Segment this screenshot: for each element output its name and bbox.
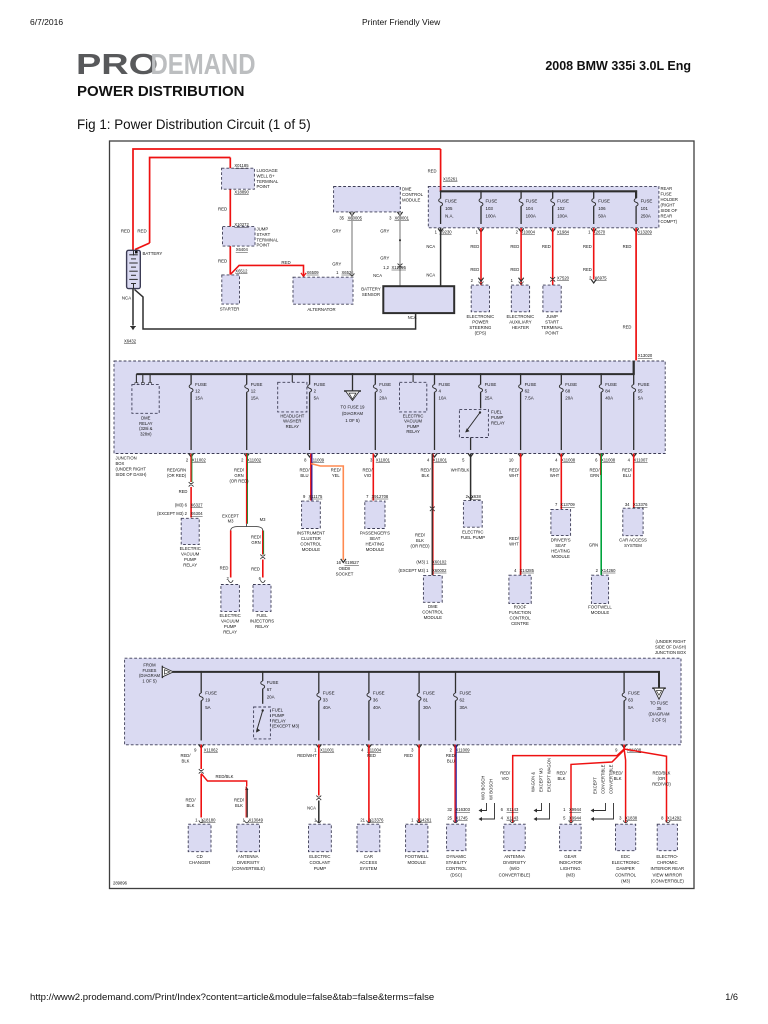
svg-text:5A: 5A bbox=[628, 705, 633, 710]
svg-text:X7520: X7520 bbox=[557, 275, 570, 280]
svg-text:63: 63 bbox=[628, 698, 633, 703]
svg-text:X11002: X11002 bbox=[247, 457, 262, 462]
svg-text:X10272: X10272 bbox=[234, 222, 249, 227]
svg-text:ELECTRO-: ELECTRO- bbox=[656, 854, 678, 859]
svg-text:DEMAND: DEMAND bbox=[151, 48, 256, 80]
svg-text:RED: RED bbox=[281, 260, 290, 265]
svg-text:16: 16 bbox=[336, 560, 341, 565]
svg-text:RED: RED bbox=[623, 325, 632, 330]
svg-text:X10004: X10004 bbox=[521, 230, 536, 235]
svg-text:FUSE: FUSE bbox=[641, 199, 653, 204]
svg-text:POINT: POINT bbox=[257, 184, 271, 189]
svg-text:MODULE: MODULE bbox=[591, 610, 610, 615]
svg-text:GRN: GRN bbox=[589, 543, 598, 548]
svg-text:X11008: X11008 bbox=[601, 457, 616, 462]
svg-text:RED/: RED/ bbox=[234, 798, 245, 803]
svg-text:DAMPER: DAMPER bbox=[616, 866, 634, 871]
svg-text:(EXCEPT M3): (EXCEPT M3) bbox=[272, 724, 300, 729]
svg-text:BLK: BLK bbox=[416, 538, 424, 543]
svg-text:DIVERSITY: DIVERSITY bbox=[503, 860, 526, 865]
svg-text:NCA: NCA bbox=[307, 806, 316, 811]
svg-text:(OR: (OR bbox=[658, 776, 666, 781]
svg-text:EXCEPT WAGON: EXCEPT WAGON bbox=[547, 758, 552, 792]
svg-text:W/O BOSCH: W/O BOSCH bbox=[481, 776, 486, 800]
svg-text:BLK: BLK bbox=[235, 803, 243, 808]
svg-text:RED: RED bbox=[510, 267, 519, 272]
svg-text:SEAT: SEAT bbox=[369, 536, 380, 541]
svg-text:REAR: REAR bbox=[661, 214, 673, 219]
svg-text:MODULE: MODULE bbox=[408, 860, 427, 865]
svg-text:36: 36 bbox=[373, 698, 378, 703]
svg-text:COMPT): COMPT) bbox=[661, 219, 678, 224]
svg-text:PUMP: PUMP bbox=[491, 415, 504, 420]
svg-text:SOCKET: SOCKET bbox=[336, 572, 354, 577]
svg-text:CONVERTIBLE): CONVERTIBLE) bbox=[499, 872, 531, 877]
svg-text:RED: RED bbox=[179, 489, 188, 494]
svg-text:WASHER: WASHER bbox=[283, 419, 301, 424]
svg-text:(RIGHT: (RIGHT bbox=[661, 203, 676, 208]
svg-text:OBDII: OBDII bbox=[339, 566, 351, 571]
svg-text:15A: 15A bbox=[251, 395, 259, 400]
svg-text:DRIVER'S: DRIVER'S bbox=[551, 538, 571, 543]
svg-text:CAR ACCESS: CAR ACCESS bbox=[619, 538, 647, 543]
svg-text:35: 35 bbox=[339, 215, 344, 220]
svg-text:40A: 40A bbox=[323, 705, 331, 710]
svg-text:RED: RED bbox=[121, 229, 130, 234]
svg-text:BATTERY: BATTERY bbox=[143, 251, 163, 256]
svg-text:RED/: RED/ bbox=[446, 753, 457, 758]
svg-text:100A: 100A bbox=[557, 213, 567, 218]
svg-text:POINT: POINT bbox=[257, 243, 271, 248]
svg-text:FUSE: FUSE bbox=[267, 680, 279, 685]
svg-text:SIDE OF DASH): SIDE OF DASH) bbox=[116, 472, 148, 477]
svg-text:RED: RED bbox=[470, 244, 479, 249]
svg-text:FUSE: FUSE bbox=[485, 382, 497, 387]
svg-text:FUSES: FUSES bbox=[143, 668, 157, 673]
svg-text:FUEL: FUEL bbox=[272, 708, 284, 713]
svg-text:(W/O: (W/O bbox=[509, 866, 520, 871]
svg-text:(M3) 6: (M3) 6 bbox=[175, 503, 188, 508]
svg-text:RED: RED bbox=[542, 244, 551, 249]
svg-text:N.A.: N.A. bbox=[445, 213, 454, 218]
svg-text:NCA: NCA bbox=[373, 273, 382, 278]
svg-text:TERMINAL: TERMINAL bbox=[541, 325, 563, 330]
svg-text:RED: RED bbox=[583, 244, 592, 249]
svg-text:RED/BLK: RED/BLK bbox=[653, 771, 671, 776]
svg-text:BOX: BOX bbox=[116, 461, 125, 466]
svg-text:RED: RED bbox=[218, 259, 227, 264]
svg-text:X14261: X14261 bbox=[417, 817, 432, 822]
svg-text:FUSE: FUSE bbox=[423, 691, 435, 696]
svg-text:MODULE: MODULE bbox=[302, 547, 321, 552]
svg-text:JUMP: JUMP bbox=[546, 314, 558, 319]
svg-text:289896: 289896 bbox=[113, 881, 128, 886]
svg-text:CONVERTIBLE: CONVERTIBLE bbox=[601, 764, 606, 794]
svg-text:FUSE: FUSE bbox=[661, 192, 672, 197]
svg-text:12: 12 bbox=[195, 389, 200, 394]
svg-text:WAGON &: WAGON & bbox=[531, 772, 536, 792]
svg-text:GRY: GRY bbox=[380, 256, 389, 261]
svg-text:1 OF 5): 1 OF 5) bbox=[142, 678, 157, 683]
svg-text:5A: 5A bbox=[638, 395, 643, 400]
svg-text:BLU: BLU bbox=[300, 473, 308, 478]
svg-text:EXCEPT M3: EXCEPT M3 bbox=[539, 768, 544, 792]
svg-text:RED: RED bbox=[583, 267, 592, 272]
svg-text:RED: RED bbox=[367, 753, 376, 758]
svg-text:X11002: X11002 bbox=[192, 457, 207, 462]
svg-text:FUSE: FUSE bbox=[628, 691, 640, 696]
svg-text:PUMP: PUMP bbox=[272, 713, 285, 718]
svg-text:106: 106 bbox=[598, 206, 606, 211]
svg-text:FUSE: FUSE bbox=[323, 691, 335, 696]
svg-text:VACUUM: VACUUM bbox=[221, 618, 240, 623]
svg-text:VIO: VIO bbox=[364, 473, 372, 478]
svg-text:55: 55 bbox=[638, 389, 643, 394]
svg-text:X1745: X1745 bbox=[456, 816, 469, 821]
svg-text:ELECTRONIC: ELECTRONIC bbox=[507, 314, 535, 319]
svg-text:MODULE: MODULE bbox=[366, 547, 385, 552]
svg-text:START: START bbox=[545, 319, 559, 324]
svg-text:PUMP: PUMP bbox=[314, 866, 327, 871]
svg-text:RED/: RED/ bbox=[509, 536, 520, 541]
svg-text:X11009: X11009 bbox=[456, 748, 471, 753]
svg-text:SIDE OF DASH): SIDE OF DASH) bbox=[655, 645, 687, 650]
svg-text:FUSE: FUSE bbox=[195, 382, 207, 387]
svg-text:X1143: X1143 bbox=[507, 807, 519, 812]
svg-text:(EPS): (EPS) bbox=[475, 330, 487, 335]
svg-text:X6304: X6304 bbox=[191, 511, 204, 516]
svg-text:RED: RED bbox=[251, 567, 260, 572]
svg-text:X9944: X9944 bbox=[569, 816, 582, 821]
svg-text:1,2: 1,2 bbox=[383, 265, 389, 270]
svg-text:X6404: X6404 bbox=[236, 247, 249, 252]
svg-text:X13376: X13376 bbox=[633, 502, 648, 507]
svg-text:http://www2.prodemand.com/Prin: http://www2.prodemand.com/Print/Index?co… bbox=[30, 992, 434, 1003]
svg-text:PRO: PRO bbox=[76, 49, 158, 80]
svg-text:BLU: BLU bbox=[447, 758, 455, 763]
svg-text:(OR RED): (OR RED) bbox=[229, 478, 249, 483]
svg-text:TO FUSE: TO FUSE bbox=[650, 701, 668, 706]
svg-text:RED/: RED/ bbox=[500, 771, 511, 776]
svg-text:(M3) 1: (M3) 1 bbox=[416, 560, 429, 565]
svg-text:X11062: X11062 bbox=[204, 748, 219, 753]
svg-text:RED/: RED/ bbox=[415, 533, 426, 538]
svg-text:CONVERTIBLE: CONVERTIBLE bbox=[609, 764, 614, 794]
svg-text:LUGGAGE: LUGGAGE bbox=[257, 168, 278, 173]
svg-text:100A: 100A bbox=[486, 213, 496, 218]
svg-text:BLK: BLK bbox=[614, 776, 622, 781]
svg-text:CENTRE: CENTRE bbox=[511, 621, 529, 626]
svg-text:FUSE: FUSE bbox=[557, 199, 569, 204]
svg-text:DME: DME bbox=[141, 416, 151, 421]
svg-text:RED: RED bbox=[137, 229, 146, 234]
svg-text:SYSTEM: SYSTEM bbox=[360, 866, 378, 871]
svg-text:X14285: X14285 bbox=[520, 568, 535, 573]
svg-text:X13049: X13049 bbox=[249, 817, 264, 822]
svg-text:GRN: GRN bbox=[590, 473, 599, 478]
svg-text:CHROMIC: CHROMIC bbox=[657, 860, 678, 865]
svg-text:19: 19 bbox=[205, 698, 210, 703]
svg-text:RED/: RED/ bbox=[420, 468, 431, 473]
svg-text:NCA: NCA bbox=[122, 296, 131, 301]
svg-text:MODULE: MODULE bbox=[552, 554, 571, 559]
svg-text:DIVERSITY: DIVERSITY bbox=[237, 860, 260, 865]
svg-text:CONTROL: CONTROL bbox=[509, 616, 531, 621]
svg-text:SENSOR: SENSOR bbox=[362, 292, 380, 297]
svg-text:10A: 10A bbox=[439, 395, 447, 400]
svg-text:68: 68 bbox=[565, 389, 570, 394]
svg-text:TERMINAL: TERMINAL bbox=[257, 237, 279, 242]
svg-text:X13020: X13020 bbox=[638, 353, 653, 358]
svg-text:(CONVERTIBLE): (CONVERTIBLE) bbox=[232, 866, 266, 871]
svg-text:X6327: X6327 bbox=[191, 503, 204, 508]
svg-text:50A: 50A bbox=[598, 213, 606, 218]
svg-text:FUSE: FUSE bbox=[373, 691, 385, 696]
svg-text:Fig 1: Power Distribution Circ: Fig 1: Power Distribution Circuit (1 of … bbox=[77, 117, 311, 132]
svg-text:STARTER: STARTER bbox=[220, 307, 240, 312]
svg-text:10: 10 bbox=[509, 457, 514, 462]
svg-text:EXCEPT: EXCEPT bbox=[593, 777, 598, 794]
svg-text:VIEW MIRROR: VIEW MIRROR bbox=[652, 872, 682, 877]
svg-text:X14292: X14292 bbox=[667, 816, 682, 821]
svg-text:X60005: X60005 bbox=[348, 215, 363, 220]
svg-text:RED/BLK: RED/BLK bbox=[216, 774, 234, 779]
svg-text:RED/: RED/ bbox=[613, 771, 624, 776]
svg-text:CLUSTER: CLUSTER bbox=[301, 536, 321, 541]
svg-text:FUSE: FUSE bbox=[638, 382, 650, 387]
svg-text:X16303: X16303 bbox=[456, 807, 471, 812]
svg-text:X1984: X1984 bbox=[557, 230, 570, 235]
svg-text:RELAY: RELAY bbox=[139, 421, 153, 426]
svg-text:W/ BOSCH: W/ BOSCH bbox=[489, 779, 494, 800]
svg-text:X12895: X12895 bbox=[392, 265, 407, 270]
svg-text:BLK: BLK bbox=[558, 776, 566, 781]
svg-text:POWER: POWER bbox=[472, 319, 488, 324]
svg-text:20A: 20A bbox=[565, 395, 573, 400]
svg-text:FUNCTION: FUNCTION bbox=[509, 610, 531, 615]
svg-text:FUSE: FUSE bbox=[251, 382, 263, 387]
svg-text:DME: DME bbox=[428, 604, 438, 609]
svg-text:RED: RED bbox=[623, 244, 632, 249]
svg-text:HEATER: HEATER bbox=[512, 325, 529, 330]
svg-text:ELECTRIC: ELECTRIC bbox=[180, 546, 201, 551]
svg-text:ELECTRONIC: ELECTRONIC bbox=[467, 314, 495, 319]
svg-text:RED/: RED/ bbox=[556, 771, 567, 776]
svg-text:25: 25 bbox=[447, 816, 452, 821]
svg-text:15A: 15A bbox=[195, 395, 203, 400]
svg-text:2 OF 5): 2 OF 5) bbox=[652, 717, 667, 722]
svg-text:328xi): 328xi) bbox=[140, 431, 152, 436]
svg-text:67: 67 bbox=[267, 687, 272, 692]
svg-text:BLU: BLU bbox=[623, 473, 631, 478]
svg-text:START: START bbox=[257, 232, 271, 237]
svg-text:CONTROL: CONTROL bbox=[615, 872, 637, 877]
svg-text:HEATING: HEATING bbox=[366, 542, 385, 547]
svg-text:X6512: X6512 bbox=[235, 268, 248, 273]
svg-text:X9944: X9944 bbox=[569, 807, 582, 812]
svg-text:STABILITY: STABILITY bbox=[446, 860, 467, 865]
svg-text:(EXCEPT M3) 1: (EXCEPT M3) 1 bbox=[399, 568, 430, 573]
svg-text:105: 105 bbox=[445, 206, 453, 211]
svg-text:X11008: X11008 bbox=[561, 457, 576, 462]
svg-text:X912708: X912708 bbox=[372, 494, 389, 499]
svg-text:2008 BMW 335i 3.0L Eng: 2008 BMW 335i 3.0L Eng bbox=[545, 59, 691, 73]
svg-text:WHT: WHT bbox=[550, 473, 560, 478]
svg-text:5A: 5A bbox=[205, 705, 210, 710]
svg-text:32: 32 bbox=[447, 807, 452, 812]
svg-text:X19527: X19527 bbox=[345, 560, 360, 565]
svg-text:RELAY: RELAY bbox=[272, 718, 286, 723]
svg-text:ELECTRIC: ELECTRIC bbox=[219, 613, 240, 618]
svg-text:WELL B+: WELL B+ bbox=[257, 173, 276, 178]
svg-text:102: 102 bbox=[557, 206, 565, 211]
svg-text:SIDE OF: SIDE OF bbox=[661, 208, 678, 213]
svg-text:X60002: X60002 bbox=[432, 568, 447, 573]
svg-text:M3: M3 bbox=[228, 519, 234, 524]
svg-text:X13209: X13209 bbox=[637, 230, 652, 235]
svg-text:40A: 40A bbox=[605, 395, 613, 400]
svg-text:CD: CD bbox=[196, 854, 202, 859]
svg-text:FUEL: FUEL bbox=[491, 410, 503, 415]
svg-text:FUSE: FUSE bbox=[439, 382, 451, 387]
svg-text:6/7/2016: 6/7/2016 bbox=[30, 17, 63, 27]
svg-text:250A: 250A bbox=[641, 213, 651, 218]
svg-text:SYSTEM: SYSTEM bbox=[624, 543, 642, 548]
svg-text:PUMP: PUMP bbox=[407, 424, 419, 429]
svg-text:X11007: X11007 bbox=[634, 457, 649, 462]
svg-text:FOOTWELL: FOOTWELL bbox=[588, 605, 612, 610]
svg-text:COOLANT: COOLANT bbox=[310, 860, 331, 865]
svg-text:(M3): (M3) bbox=[621, 878, 630, 883]
svg-text:DYNAMIC: DYNAMIC bbox=[446, 854, 466, 859]
svg-text:FUSE: FUSE bbox=[445, 199, 457, 204]
svg-text:FUSE: FUSE bbox=[565, 382, 577, 387]
svg-text:X18890: X18890 bbox=[234, 189, 249, 194]
svg-text:RED/: RED/ bbox=[622, 468, 633, 473]
svg-text:INDICATOR: INDICATOR bbox=[559, 860, 582, 865]
svg-text:RED/: RED/ bbox=[185, 798, 196, 803]
svg-text:RED/: RED/ bbox=[331, 468, 342, 473]
svg-text:7.5A: 7.5A bbox=[525, 395, 534, 400]
svg-text:(UNDER RIGHT: (UNDER RIGHT bbox=[656, 639, 687, 644]
svg-text:20A: 20A bbox=[267, 694, 275, 699]
svg-text:JUMP: JUMP bbox=[257, 227, 269, 232]
svg-text:ANTENNA: ANTENNA bbox=[504, 854, 525, 859]
svg-text:33: 33 bbox=[323, 698, 328, 703]
svg-text:103: 103 bbox=[486, 206, 494, 211]
svg-text:FUSE: FUSE bbox=[525, 382, 537, 387]
svg-text:TERMINAL: TERMINAL bbox=[257, 179, 279, 184]
svg-text:EDC: EDC bbox=[621, 854, 630, 859]
svg-text:LIGHTING: LIGHTING bbox=[560, 866, 581, 871]
svg-text:BATTERY: BATTERY bbox=[361, 287, 381, 292]
svg-text:FUEL PUMP: FUEL PUMP bbox=[461, 535, 486, 540]
svg-text:(OR RED): (OR RED) bbox=[167, 473, 187, 478]
svg-text:X11001: X11001 bbox=[376, 457, 391, 462]
svg-text:FUSE: FUSE bbox=[379, 382, 391, 387]
svg-text:BLK: BLK bbox=[182, 758, 190, 763]
svg-text:RED/: RED/ bbox=[180, 753, 191, 758]
svg-text:RED/VIO): RED/VIO) bbox=[652, 781, 671, 786]
svg-text:JUNCTION: JUNCTION bbox=[116, 456, 137, 461]
svg-text:RED/: RED/ bbox=[589, 468, 600, 473]
svg-text:GRY: GRY bbox=[332, 262, 341, 267]
svg-text:INSTRUMENT: INSTRUMENT bbox=[297, 531, 326, 536]
svg-text:(DIAGRAM: (DIAGRAM bbox=[139, 673, 160, 678]
svg-text:VACUUM: VACUUM bbox=[404, 419, 422, 424]
svg-text:RED: RED bbox=[218, 207, 227, 212]
svg-text:HOLDER: HOLDER bbox=[661, 197, 678, 202]
svg-text:MODULE: MODULE bbox=[402, 197, 421, 202]
svg-text:FUSE: FUSE bbox=[460, 691, 472, 696]
svg-text:40A: 40A bbox=[373, 705, 381, 710]
svg-text:FUSE: FUSE bbox=[598, 199, 610, 204]
svg-text:HEADLIGHT: HEADLIGHT bbox=[280, 413, 304, 418]
svg-text:1 OF 5): 1 OF 5) bbox=[345, 418, 360, 423]
svg-text:RED: RED bbox=[220, 566, 229, 571]
svg-text:X13376: X13376 bbox=[369, 817, 384, 822]
svg-text:FROM: FROM bbox=[143, 663, 156, 668]
svg-text:TO FUSE 19: TO FUSE 19 bbox=[341, 405, 366, 410]
svg-text:RED/: RED/ bbox=[550, 468, 561, 473]
svg-text:GRY: GRY bbox=[332, 229, 341, 234]
svg-text:X60102: X60102 bbox=[432, 560, 447, 565]
svg-text:REAR: REAR bbox=[661, 186, 673, 191]
svg-text:25A: 25A bbox=[485, 395, 493, 400]
svg-text:WHT: WHT bbox=[509, 473, 519, 478]
svg-text:FUEL: FUEL bbox=[257, 613, 269, 618]
svg-text:STEERING: STEERING bbox=[469, 325, 492, 330]
svg-text:CONTROL: CONTROL bbox=[300, 542, 322, 547]
svg-text:JUNCTION BOX: JUNCTION BOX bbox=[655, 650, 686, 655]
svg-text:ELECTRIC: ELECTRIC bbox=[403, 413, 424, 418]
svg-text:RED/: RED/ bbox=[509, 468, 520, 473]
svg-text:(328i &: (328i & bbox=[139, 426, 152, 431]
svg-text:X9230: X9230 bbox=[440, 230, 453, 235]
svg-text:INJECTORS: INJECTORS bbox=[250, 618, 274, 623]
svg-text:100A: 100A bbox=[526, 213, 536, 218]
svg-text:GRN: GRN bbox=[234, 473, 243, 478]
svg-text:(DSC): (DSC) bbox=[450, 872, 463, 877]
svg-text:RELAY: RELAY bbox=[286, 424, 300, 429]
svg-text:POWER DISTRIBUTION: POWER DISTRIBUTION bbox=[77, 83, 245, 100]
svg-text:62: 62 bbox=[460, 698, 465, 703]
svg-text:INTERIOR REAR: INTERIOR REAR bbox=[650, 866, 684, 871]
svg-text:CAR: CAR bbox=[364, 854, 373, 859]
svg-text:ANTENNA: ANTENNA bbox=[238, 854, 259, 859]
svg-text:GRN: GRN bbox=[251, 540, 260, 545]
svg-text:1/6: 1/6 bbox=[725, 992, 738, 1002]
svg-text:X14260: X14260 bbox=[601, 568, 616, 573]
svg-text:FUSE: FUSE bbox=[526, 199, 538, 204]
svg-text:ELECTRIC: ELECTRIC bbox=[309, 854, 330, 859]
svg-text:FUSE: FUSE bbox=[314, 382, 326, 387]
svg-text:GEAR: GEAR bbox=[564, 854, 576, 859]
svg-text:PUMP: PUMP bbox=[224, 624, 237, 629]
svg-text:12: 12 bbox=[251, 389, 256, 394]
svg-text:RED/: RED/ bbox=[299, 468, 310, 473]
svg-text:RELAY: RELAY bbox=[255, 624, 269, 629]
svg-text:WHT: WHT bbox=[509, 541, 519, 546]
svg-text:ROOF: ROOF bbox=[514, 605, 527, 610]
svg-text:CHANGER: CHANGER bbox=[189, 860, 211, 865]
svg-text:X01185: X01185 bbox=[234, 163, 249, 168]
svg-text:RED/: RED/ bbox=[362, 468, 373, 473]
svg-text:X1143: X1143 bbox=[507, 816, 519, 821]
svg-text:RELAY: RELAY bbox=[406, 429, 420, 434]
svg-text:5A: 5A bbox=[314, 395, 319, 400]
svg-text:M3: M3 bbox=[260, 517, 266, 522]
